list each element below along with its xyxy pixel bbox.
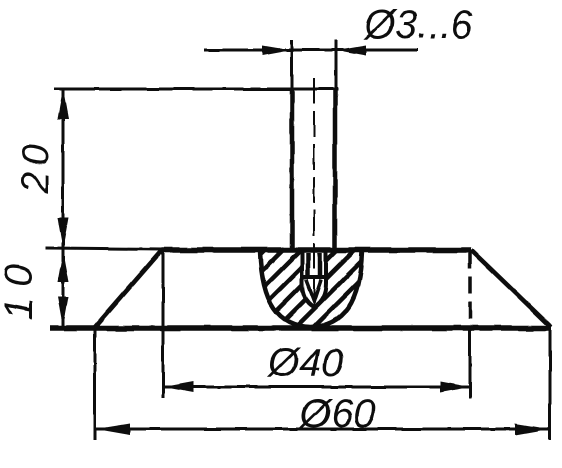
svg-text:Ø40: Ø40 [266, 341, 344, 385]
svg-text:Ø3...6: Ø3...6 [362, 3, 474, 47]
svg-text:10: 10 [0, 254, 41, 321]
svg-text:Ø60: Ø60 [298, 392, 376, 436]
svg-text:20: 20 [15, 139, 57, 194]
